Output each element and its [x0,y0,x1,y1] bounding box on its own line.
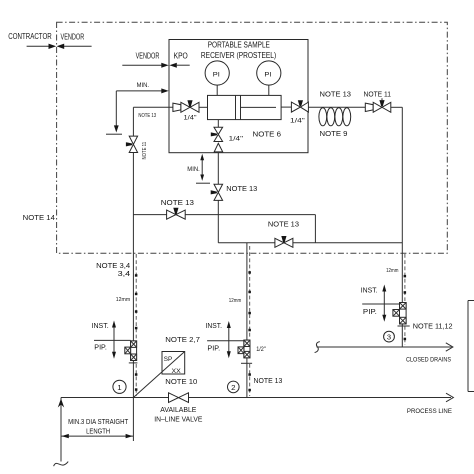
svg-text:NOTE 11: NOTE 11 [364,92,392,99]
sp sample point box [133,352,184,398]
svg-text:12mm: 12mm [386,268,398,274]
svg-text:PIP.: PIP. [363,309,377,316]
svg-text:2: 2 [231,383,235,392]
left riser [132,107,134,136]
closed drains line [315,342,453,364]
valve V5 note 13 header2 [275,236,293,247]
svg-text:VENDOR: VENDOR [136,51,160,60]
svg-text:1: 1 [117,383,121,392]
valve V2 outlet 1/4in [281,100,308,112]
svg-text:NOTE 14: NOTE 14 [23,215,55,222]
circled 3 [384,331,395,342]
pipe left of receiver [133,106,173,108]
svg-text:PIP.: PIP. [94,345,107,352]
svg-text:NOTE 13: NOTE 13 [161,200,194,207]
svg-text:NOTE 2,7: NOTE 2,7 [165,337,200,344]
svg-text:NOTE 13: NOTE 13 [226,186,257,193]
process line [61,393,453,415]
svg-text:1/2": 1/2" [256,346,266,353]
svg-text:MIN.: MIN. [137,82,149,89]
svg-text:LENGTH: LENGTH [86,428,110,435]
sample coil note 9 [319,108,351,126]
trace right [404,254,406,301]
svg-text:SP: SP [164,356,172,363]
vendor boundary dash-dot box [57,22,448,253]
svg-text:PIP.: PIP. [207,346,220,353]
header 1 [133,214,315,216]
manifold left [125,341,138,363]
svg-text:NOTE 11: NOTE 11 [142,142,148,160]
svg-text:INST.: INST. [92,323,109,330]
inst/pip arrow right [361,285,400,322]
svg-text:NOTE 10: NOTE 10 [165,379,197,386]
circled 2 [228,381,240,393]
contractor/vendor arrows [8,32,91,49]
svg-text:AVAILABLE: AVAILABLE [160,407,196,414]
manifold right [393,303,410,327]
svg-text:INST.: INST. [206,323,223,330]
vendor/kpo arrows [122,51,189,67]
svg-text:NOTE 6: NOTE 6 [253,131,282,138]
svg-text:1/4": 1/4" [229,136,244,143]
circled 1 [113,380,126,393]
valve V4 note 13 header1 [167,208,186,219]
inst/pip arrow left [92,321,131,359]
pipe to right riser [391,106,403,108]
MIN dimension drain [187,154,210,183]
svg-text:RECEIVER (PROSTEEL): RECEIVER (PROSTEEL) [201,51,277,60]
svg-text:PI: PI [264,71,271,78]
PI gauge right [257,61,281,96]
valve V1 inlet 1/4in [173,100,208,112]
svg-text:3: 3 [387,335,391,342]
drain line [217,153,219,185]
svg-text:CONTRACTOR: CONTRACTOR [8,32,52,41]
drain funnel [214,143,223,152]
svg-text:IN–LINE VALVE: IN–LINE VALVE [154,416,202,423]
svg-text:NOTE 3,4: NOTE 3,4 [96,263,130,270]
valve note 11 left riser [126,136,138,152]
svg-text:3,4: 3,4 [118,271,131,278]
min 3 dia dimension [61,398,133,442]
right riser [401,107,403,347]
drain valve C note 13 [211,184,223,200]
svg-text:CLOSED DRAINS: CLOSED DRAINS [406,357,451,364]
receiver box [169,40,308,153]
drain from cylinder [217,120,219,128]
MIN arrow to receiver [106,82,169,134]
svg-text:NOTE 9: NOTE 9 [320,131,348,138]
drain valve A 1/4in [211,127,223,141]
svg-text:VENDOR: VENDOR [61,33,85,42]
svg-text:KPO: KPO [174,51,188,60]
inst/pip arrow middle [206,321,244,358]
svg-text:NOTE 11,12: NOTE 11,12 [413,324,453,331]
svg-text:12mm: 12mm [116,297,131,303]
svg-text:1/4": 1/4" [184,114,198,121]
in-line valve [154,393,202,424]
right edge partial box [468,301,474,392]
svg-text:PROCESS LINE: PROCESS LINE [407,408,452,415]
pipe receiver to coil [308,106,365,108]
svg-text:INST.: INST. [361,287,378,294]
svg-text:NOTE 13: NOTE 13 [254,378,283,385]
trace left [135,254,137,340]
trace middle [249,246,251,339]
valve V3 note 11 [365,98,391,112]
middle riser [246,243,248,398]
svg-text:1/4": 1/4" [290,118,306,125]
svg-text:NOTE 13: NOTE 13 [138,113,156,119]
process riser start [54,398,69,467]
svg-text:PORTABLE SAMPLE: PORTABLE SAMPLE [208,40,270,49]
svg-text:PI: PI [213,71,220,78]
svg-text:12mm: 12mm [229,298,242,304]
svg-text:MIN.: MIN. [187,166,200,173]
header1 drop [314,215,316,243]
header 2 [218,242,402,244]
PI gauge left [205,61,229,96]
svg-text:MIN.3 DIA STRAIGHT: MIN.3 DIA STRAIGHT [68,419,129,426]
manifold middle [238,340,252,363]
svg-text:NOTE 13: NOTE 13 [268,222,299,229]
sample cylinder [208,95,282,119]
svg-text:XX: XX [172,368,182,375]
svg-text:NOTE 13: NOTE 13 [320,92,352,99]
